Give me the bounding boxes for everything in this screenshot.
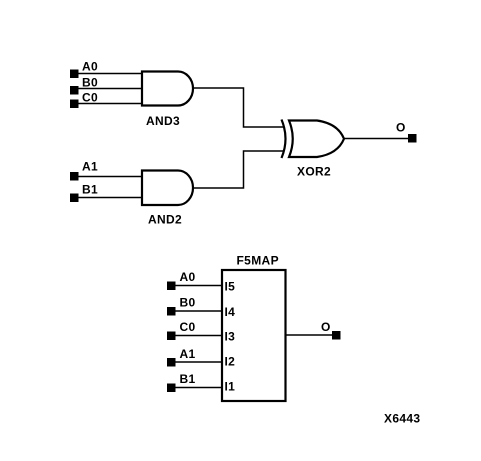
output pin O (F5MAP) — [332, 331, 341, 340]
wire B0 to I4 — [175, 310, 222, 312]
input pin A1 — [70, 172, 79, 181]
wire B1 to AND2 pin2 — [78, 197, 143, 199]
svg-text:I5: I5 — [225, 280, 236, 294]
svg-text:I2: I2 — [225, 355, 236, 369]
gate AND3 — [142, 72, 193, 106]
svg-text:A0: A0 — [180, 270, 196, 284]
input pin C0 — [70, 100, 79, 109]
output pin O (top) — [408, 134, 417, 143]
gate AND2 — [142, 171, 193, 206]
wire A1 to AND2 pin1 — [78, 176, 143, 178]
svg-text:XOR2: XOR2 — [297, 165, 331, 179]
block F5MAP — [222, 270, 286, 401]
input pin A0 — [70, 70, 79, 79]
gate XOR2 body — [289, 121, 344, 158]
svg-text:C0: C0 — [82, 91, 98, 105]
wire C0 to AND3 pin3 — [78, 103, 143, 105]
wire A0 to AND3 pin1 — [78, 73, 143, 75]
input pin B1 (F5MAP) — [167, 384, 176, 393]
gate XOR2 input arc — [282, 120, 286, 159]
svg-text:B1: B1 — [180, 372, 196, 386]
svg-text:B0: B0 — [180, 296, 196, 310]
input pin B1 — [70, 194, 79, 203]
svg-text:O: O — [396, 121, 406, 135]
svg-text:X6443: X6443 — [384, 412, 420, 426]
wire F5MAP output to pin O — [286, 334, 333, 336]
svg-text:A0: A0 — [82, 60, 98, 74]
svg-text:A1: A1 — [82, 160, 98, 174]
wire A0 to I5 — [175, 285, 222, 287]
svg-text:AND2: AND2 — [148, 213, 182, 227]
wire B0 to AND3 pin2 — [78, 88, 143, 90]
wire AND2 output to XOR2 bottom input — [192, 151, 284, 188]
svg-text:F5MAP: F5MAP — [237, 254, 279, 268]
input pin A0 (F5MAP) — [167, 282, 176, 291]
input pin A1 (F5MAP) — [167, 358, 176, 367]
svg-text:B0: B0 — [82, 76, 98, 90]
svg-text:I1: I1 — [225, 380, 236, 394]
wire A1 to I2 — [175, 361, 222, 363]
input pin B0 (F5MAP) — [167, 307, 176, 316]
svg-text:AND3: AND3 — [146, 114, 180, 128]
svg-text:B1: B1 — [82, 183, 98, 197]
wire XOR2 output to pin O — [343, 138, 408, 140]
svg-text:C0: C0 — [180, 320, 196, 334]
svg-text:O: O — [321, 320, 331, 334]
input pin B0 — [70, 86, 79, 95]
svg-text:I4: I4 — [225, 305, 236, 319]
wire C0 to I3 — [175, 335, 222, 337]
wire B1 to I1 — [175, 387, 222, 389]
input pin C0 (F5MAP) — [167, 332, 176, 341]
svg-text:A1: A1 — [180, 347, 196, 361]
wire AND3 output to XOR2 top input — [192, 88, 284, 127]
svg-text:I3: I3 — [225, 330, 236, 344]
